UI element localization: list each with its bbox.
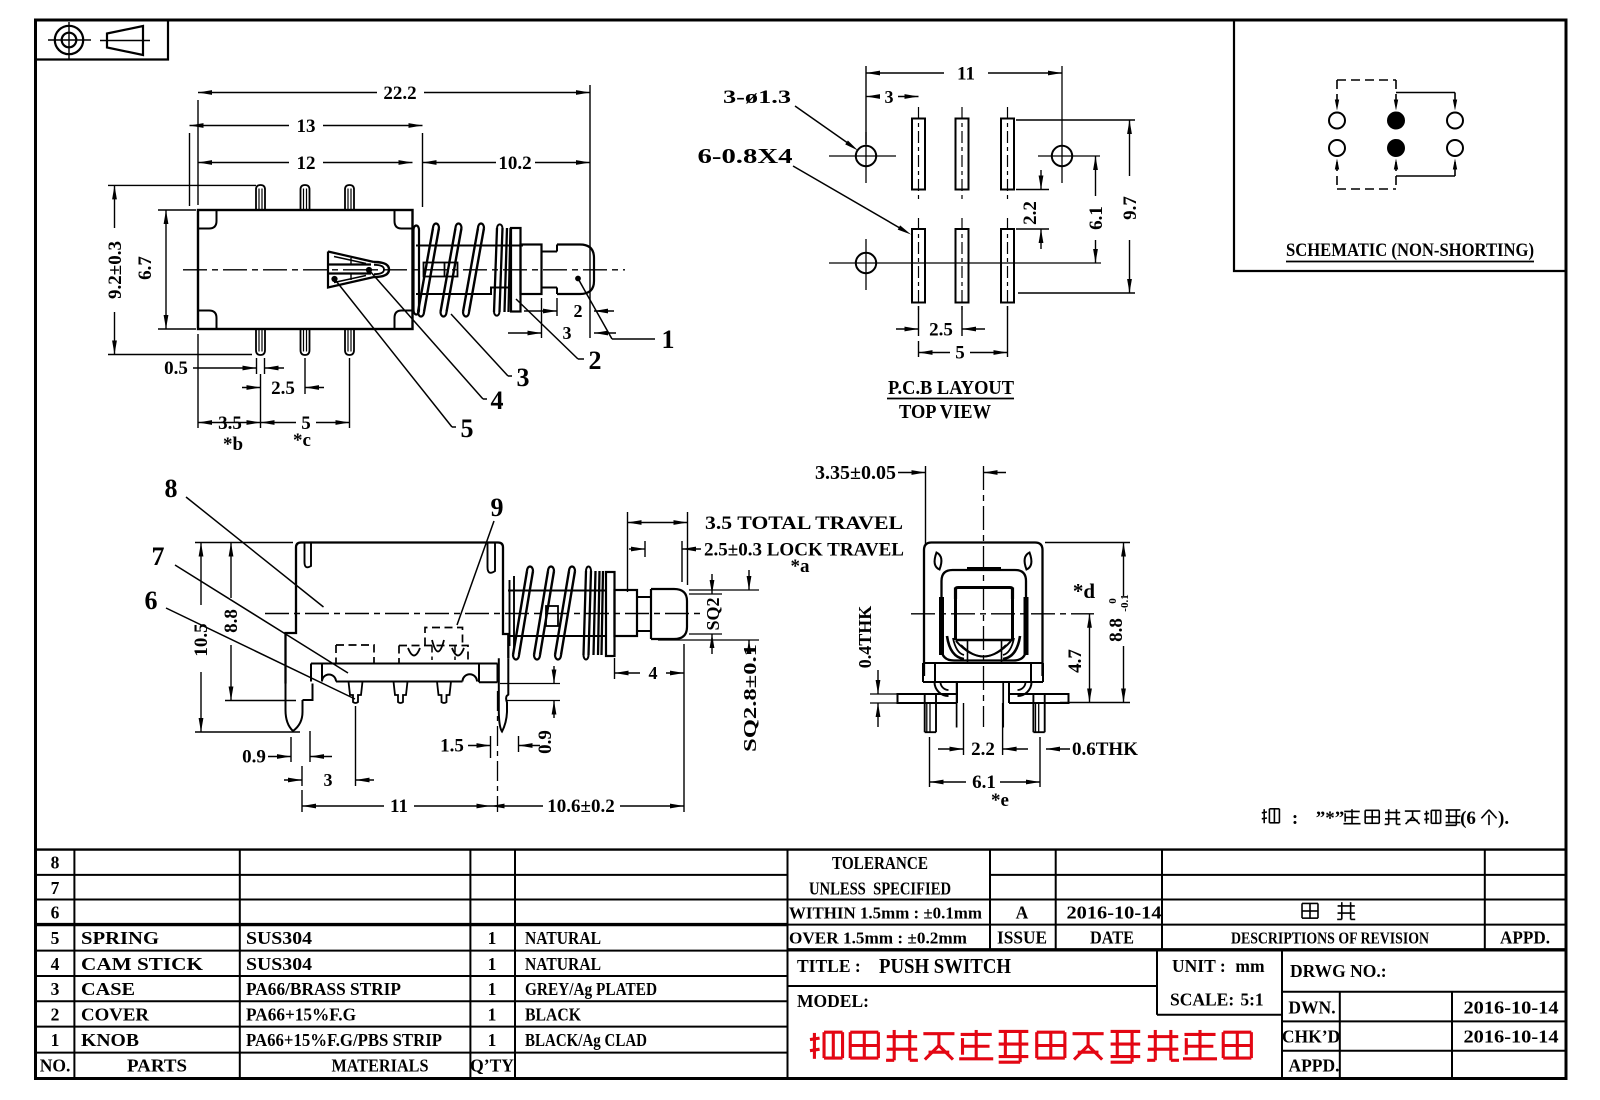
dim 12 <box>422 133 424 207</box>
leader part 2 <box>516 299 578 359</box>
svg-text:*d: *d <box>1073 579 1096 603</box>
view1 top terminal pin 2 <box>301 185 310 210</box>
dim 2.2 view3 <box>963 703 965 755</box>
dim 0.5 <box>256 358 258 374</box>
svg-text:10.5: 10.5 <box>191 623 212 656</box>
view3 inner frame <box>942 570 1027 661</box>
svg-text:8.8: 8.8 <box>221 609 242 633</box>
schematic contact circles row1 <box>1329 113 1345 129</box>
svg-text:11: 11 <box>957 64 975 85</box>
view1 washer (part 2) <box>511 228 521 312</box>
pcb slot top col1 <box>912 119 925 190</box>
svg-text:1: 1 <box>488 928 497 948</box>
view2 centerline <box>265 613 700 615</box>
view1 bottom terminal pin 2 <box>301 329 310 355</box>
svg-text:Q’TY: Q’TY <box>470 1056 514 1076</box>
svg-text:mm: mm <box>1235 956 1265 976</box>
svg-text:9.7: 9.7 <box>1120 196 1141 220</box>
svg-text:GREY/Ag PLATED: GREY/Ag PLATED <box>525 979 657 999</box>
view1 corner crimp bottom-left <box>198 311 217 330</box>
schematic box <box>1234 20 1566 271</box>
svg-text:SQ2.8±0.1: SQ2.8±0.1 <box>740 644 760 752</box>
schematic contact circles row2 <box>1329 140 1345 156</box>
note: key dimensions <box>1263 809 1265 823</box>
pcb dim 5 <box>1007 306 1009 357</box>
svg-text:1: 1 <box>488 979 497 999</box>
view3 case corner hooks <box>935 682 949 696</box>
pcb dim 6.1 <box>1095 156 1097 196</box>
svg-text:SCALE:: SCALE: <box>1170 990 1234 1010</box>
pcb slot centerline col3 <box>1007 107 1009 200</box>
view3 vertical centerline <box>983 466 985 727</box>
pcb slot bottom col1 <box>912 229 925 303</box>
svg-text:SUS304: SUS304 <box>246 954 312 974</box>
svg-text:-0.1: -0.1 <box>1119 594 1131 611</box>
pcb hole bottom-left <box>856 253 876 273</box>
svg-text:13: 13 <box>297 116 316 137</box>
svg-text:2.2: 2.2 <box>971 739 995 760</box>
svg-text:0: 0 <box>1107 598 1119 604</box>
svg-text:1: 1 <box>488 954 497 974</box>
svg-text:NATURAL: NATURAL <box>525 928 601 948</box>
dim 3.5 total travel <box>627 512 629 592</box>
svg-text:6: 6 <box>145 586 158 615</box>
view3 cover outer <box>924 543 1043 677</box>
svg-text:”*”: ”*” <box>1316 808 1345 829</box>
svg-text:2: 2 <box>574 301 583 321</box>
dim 8.8 view3 <box>1045 542 1130 544</box>
svg-text:8: 8 <box>165 474 178 503</box>
svg-text:4: 4 <box>491 386 504 415</box>
svg-text:BLACK: BLACK <box>525 1004 581 1024</box>
view2 hidden contact box left <box>336 645 374 664</box>
dim 6.1 view3 <box>929 737 931 787</box>
svg-text:3: 3 <box>51 979 60 999</box>
dim 10.2 <box>423 162 497 164</box>
view3 knob front <box>956 588 1013 641</box>
dim 3.35±0.05 <box>925 466 927 545</box>
svg-text:4: 4 <box>649 663 658 683</box>
svg-text:1: 1 <box>488 1004 497 1024</box>
svg-text:3: 3 <box>517 363 530 392</box>
svg-text:4.7: 4.7 <box>1065 649 1086 673</box>
view2 case pins (part 6) <box>349 682 363 704</box>
view1 plunger shaft <box>416 246 523 295</box>
view3 corner slot right <box>1025 553 1032 570</box>
pcb dim 2.2 <box>1016 189 1049 191</box>
pcb hole top-right <box>1052 146 1072 166</box>
svg-text:0.9: 0.9 <box>535 730 556 754</box>
view1 centerline <box>183 269 625 271</box>
svg-text:*c: *c <box>293 430 311 451</box>
table lines <box>36 848 1567 850</box>
view3 side shadows <box>939 597 944 655</box>
dim 11 view2 <box>301 790 303 812</box>
svg-text:5: 5 <box>955 343 965 364</box>
pcb slot centerline col1 <box>918 107 920 200</box>
dim 10.5 <box>195 542 293 544</box>
pcb slot centerline col2 <box>961 107 963 200</box>
dim 22.2 <box>197 100 199 205</box>
pcb dim 2.5 <box>918 306 920 336</box>
view3 horizontal centerline <box>911 613 1094 615</box>
view1 top terminal pin 3 <box>345 185 354 210</box>
svg-text:DWN.: DWN. <box>1288 998 1335 1018</box>
leader part 1 <box>578 279 612 340</box>
svg-text:SUS304: SUS304 <box>246 928 312 948</box>
svg-text:2.5: 2.5 <box>929 320 953 341</box>
view1 plunger neck <box>542 245 558 295</box>
view3 right solder leg <box>1033 694 1044 732</box>
svg-text:2016-10-14: 2016-10-14 <box>1067 903 1162 923</box>
view2 plunger shaft <box>508 591 606 637</box>
svg-text:12: 12 <box>297 153 316 174</box>
dim 8.8 view2 <box>225 700 296 702</box>
svg-text:11: 11 <box>390 796 408 817</box>
dim 3.5 <box>197 334 199 428</box>
svg-text:SQ2: SQ2 <box>703 597 723 630</box>
svg-text:5: 5 <box>51 928 60 948</box>
view1 leader dot part4 <box>366 267 371 272</box>
svg-text:CASE: CASE <box>81 979 135 999</box>
svg-text:MODEL:: MODEL: <box>797 991 869 1011</box>
dim 2.5 pins <box>304 358 306 394</box>
svg-text:UNIT :: UNIT : <box>1172 956 1226 976</box>
view2 spring <box>513 571 527 655</box>
pcb slot bottom col3 <box>1001 229 1014 303</box>
svg-text:0.5: 0.5 <box>164 358 188 379</box>
view2 plunger neck <box>637 590 651 639</box>
svg-text:*e: *e <box>991 790 1009 811</box>
svg-text:1: 1 <box>488 1030 497 1050</box>
svg-text:PA66/BRASS STRIP: PA66/BRASS STRIP <box>246 979 401 999</box>
dim 4.7 <box>1060 702 1130 704</box>
svg-text:6: 6 <box>51 903 60 923</box>
dim 2 knob <box>556 298 558 316</box>
svg-text:2.2: 2.2 <box>1020 201 1041 225</box>
svg-text:SPRING: SPRING <box>81 928 159 948</box>
view1 shaft collar <box>424 263 458 277</box>
view1 corner crimp top-right <box>395 210 413 229</box>
svg-text:0.9: 0.9 <box>242 747 266 768</box>
view2 right mounting leg <box>499 658 509 731</box>
svg-text:P.C.B LAYOUT: P.C.B LAYOUT <box>888 377 1015 399</box>
svg-text:(6: (6 <box>1460 808 1476 829</box>
svg-text:2: 2 <box>51 1004 60 1024</box>
dim 1.5 <box>518 736 520 752</box>
svg-text:TITLE :: TITLE : <box>797 956 861 976</box>
view1 cam stick (part 4/5) <box>328 252 374 288</box>
view3 spring front arcs <box>956 641 1011 657</box>
view3 left solder leg <box>925 694 936 732</box>
view3 foot bracket right <box>1009 682 1069 703</box>
dim 2.5 lock travel <box>644 541 646 557</box>
svg-text:10.2: 10.2 <box>498 153 531 174</box>
dim 0.4THK <box>870 693 899 695</box>
svg-text:PARTS: PARTS <box>127 1056 187 1076</box>
svg-text:TOP VIEW: TOP VIEW <box>899 401 991 423</box>
svg-text:CHK’D: CHK’D <box>1282 1027 1340 1047</box>
svg-text:6-0.8X4: 6-0.8X4 <box>698 144 794 168</box>
dim 6.7 <box>158 209 196 211</box>
svg-text:NO.: NO. <box>40 1056 71 1076</box>
dim 10.6±0.2 <box>683 644 685 812</box>
view3 contact wings <box>947 636 964 659</box>
pcb dim 11 <box>865 66 867 144</box>
view1 leader dot part5 <box>332 276 337 281</box>
svg-text:ISSUE: ISSUE <box>997 928 1047 948</box>
schematic dashed pole frame <box>1337 79 1396 81</box>
pcb hole top-left <box>856 146 876 166</box>
pcb slot bottom col2 <box>956 229 969 303</box>
view2 hidden contact box right <box>399 628 468 664</box>
pcb dim 3 <box>866 96 880 98</box>
svg-text:APPD.: APPD. <box>1500 928 1550 948</box>
svg-text:9.2±0.3: 9.2±0.3 <box>105 241 126 299</box>
svg-text:*a: *a <box>791 556 811 577</box>
dim 3 view2 <box>301 766 303 786</box>
svg-text:APPD.: APPD. <box>1288 1056 1339 1076</box>
svg-text:PA66+15%F.G: PA66+15%F.G <box>246 1004 356 1024</box>
svg-text:2016-10-14: 2016-10-14 <box>1464 998 1559 1018</box>
first edition chars <box>1302 902 1318 904</box>
view2 cover hook slot right <box>488 543 496 573</box>
view1 leader dot part1 <box>576 276 581 281</box>
svg-text:7: 7 <box>152 542 165 571</box>
svg-text:3: 3 <box>885 87 894 107</box>
svg-text:TOLERANCE: TOLERANCE <box>832 853 928 873</box>
svg-text:1.5: 1.5 <box>440 736 464 757</box>
view2 cover hook slot left <box>305 543 312 568</box>
svg-text:0.4THK: 0.4THK <box>855 606 875 669</box>
view2 washer <box>606 572 615 656</box>
svg-text:SCHEMATIC (NON-SHORTING): SCHEMATIC (NON-SHORTING) <box>1286 240 1534 261</box>
dim SQ2 <box>689 593 722 595</box>
svg-text:NATURAL: NATURAL <box>525 954 601 974</box>
view1 top terminal pin 1 <box>256 185 265 210</box>
svg-text:0.6THK: 0.6THK <box>1072 739 1138 760</box>
pcb dim 9.7 <box>1016 119 1135 121</box>
view3 foot bracket left <box>898 682 958 703</box>
view1 case body (part 3) <box>198 210 413 329</box>
view1 corner crimp bottom-right <box>395 311 413 330</box>
view2 contacts <box>408 640 464 656</box>
view2 case strip (part 7) <box>311 664 498 683</box>
view1 corner crimp top-left <box>198 210 217 229</box>
view1 spring seat lip <box>414 226 420 315</box>
svg-text::: : <box>1292 808 1298 829</box>
projection symbol target circle <box>55 26 83 54</box>
pcb slot top col3 <box>1001 119 1014 190</box>
view2 plunger shoulder <box>615 590 638 636</box>
svg-text:10.6±0.2: 10.6±0.2 <box>547 796 614 817</box>
view2 left mounting leg <box>286 684 303 732</box>
leader part 4 <box>369 270 483 399</box>
view3 under-knob lines <box>967 640 969 662</box>
view1 bottom terminal pin 1 <box>256 329 265 355</box>
svg-text:8: 8 <box>51 853 60 873</box>
svg-text:DESCRIPTIONS OF REVISION: DESCRIPTIONS OF REVISION <box>1231 929 1429 948</box>
pcb slot top col2 <box>956 119 969 190</box>
view3 corner slot left <box>935 553 942 570</box>
svg-text:5:1: 5:1 <box>1240 990 1263 1010</box>
svg-text:2: 2 <box>589 346 602 375</box>
svg-text:DRWG NO.:: DRWG NO.: <box>1290 961 1387 981</box>
dim 0.6THK <box>1046 748 1070 750</box>
leader part 5 <box>335 279 453 427</box>
dim 3 knob <box>541 298 543 338</box>
svg-text:6.1: 6.1 <box>1086 206 1107 230</box>
svg-text:*b: *b <box>223 434 243 455</box>
svg-text:PUSH SWITCH: PUSH SWITCH <box>879 954 1011 978</box>
dim 5 pins <box>349 358 351 428</box>
dim 0.9 left <box>290 737 292 762</box>
svg-text:8.8: 8.8 <box>1106 618 1127 642</box>
leader part 3 <box>451 314 508 376</box>
svg-text:7: 7 <box>51 878 60 898</box>
svg-text:MATERIALS: MATERIALS <box>332 1056 429 1076</box>
svg-text:5: 5 <box>461 414 474 443</box>
svg-text:2016-10-14: 2016-10-14 <box>1464 1027 1559 1047</box>
projection symbol cone <box>107 26 143 55</box>
svg-text:3: 3 <box>563 323 572 343</box>
svg-text:9: 9 <box>491 493 504 522</box>
svg-text:CAM STICK: CAM STICK <box>81 954 203 974</box>
svg-text:KNOB: KNOB <box>81 1030 139 1050</box>
svg-text:2.5: 2.5 <box>271 378 295 399</box>
projection symbol box <box>36 20 169 60</box>
svg-text:1: 1 <box>662 325 675 354</box>
dim 4 <box>614 658 616 679</box>
view3 case band <box>923 663 1043 682</box>
svg-text:3.5: 3.5 <box>218 413 242 434</box>
svg-text:BLACK/Ag CLAD: BLACK/Ag CLAD <box>525 1030 647 1050</box>
dim 13 <box>189 133 191 206</box>
view1 knob (part 1) <box>557 245 594 295</box>
svg-text:COVER: COVER <box>81 1004 149 1024</box>
schematic solid pole frame <box>1396 92 1455 94</box>
svg-text:3: 3 <box>324 770 333 790</box>
dim 0.9 right <box>500 683 560 685</box>
svg-text:4: 4 <box>51 954 60 974</box>
svg-text:6.7: 6.7 <box>135 256 156 280</box>
view1 spring end coils <box>494 228 511 312</box>
view2 knob <box>651 589 687 639</box>
view1 plunger shoulder <box>521 245 542 295</box>
company name (red) <box>813 1033 816 1059</box>
dim 9.2±0.3 <box>108 184 256 186</box>
svg-text:3.5 TOTAL TRAVEL: 3.5 TOTAL TRAVEL <box>705 513 903 534</box>
svg-text:3.35±0.05: 3.35±0.05 <box>815 462 896 484</box>
svg-text:A: A <box>1016 903 1029 923</box>
view2 cover outline (part 8) <box>296 543 508 659</box>
svg-text:UNLESS SPECIFIED: UNLESS SPECIFIED <box>809 879 951 899</box>
view1 spring (part 5 area) <box>418 228 433 312</box>
svg-text:OVER 1.5mm : ±0.2mm: OVER 1.5mm : ±0.2mm <box>789 929 967 948</box>
svg-text:DATE: DATE <box>1090 928 1134 948</box>
svg-text:WITHIN 1.5mm : ±0.1mm: WITHIN 1.5mm : ±0.1mm <box>789 904 982 923</box>
svg-text:3-ø1.3: 3-ø1.3 <box>723 87 791 108</box>
svg-text:22.2: 22.2 <box>383 83 416 104</box>
dim SQ2.8±0.1 <box>689 589 759 591</box>
svg-text:1: 1 <box>51 1030 60 1050</box>
svg-text:).: ). <box>1498 808 1509 829</box>
view1 bottom terminal pin 3 <box>345 329 354 355</box>
svg-text:PA66+15%F.G/PBS STRIP: PA66+15%F.G/PBS STRIP <box>246 1030 442 1050</box>
